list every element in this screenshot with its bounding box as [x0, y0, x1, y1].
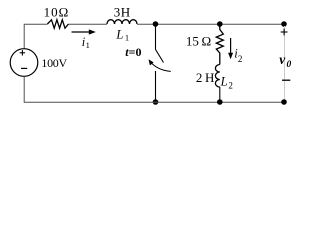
- svg-text:L: L: [220, 74, 228, 88]
- switch top lead: [155, 24, 157, 50]
- svg-text:v: v: [279, 52, 286, 67]
- wire: top-left corner segment: [24, 24, 47, 49]
- switch bottom lead: [155, 71, 157, 102]
- faint open-terminal line: [284, 26, 286, 100]
- output polarity minus: [282, 79, 290, 81]
- svg-text:t=0: t=0: [125, 45, 141, 59]
- svg-text:2: 2: [238, 54, 243, 64]
- switch blade: [156, 50, 164, 63]
- node: branch bottom: [217, 99, 223, 105]
- voltage source circle: [10, 49, 38, 77]
- node: switch bottom: [153, 99, 159, 105]
- svg-text:2 H: 2 H: [196, 70, 215, 85]
- node: switch top: [153, 21, 159, 27]
- svg-text:3H: 3H: [114, 5, 131, 20]
- node: output top: [281, 21, 287, 27]
- svg-text:1: 1: [86, 40, 90, 50]
- voltage source minus: [21, 67, 27, 69]
- svg-text:L: L: [115, 27, 123, 41]
- switch motion arc: [150, 62, 171, 72]
- node: output bottom: [281, 99, 287, 105]
- wire: L2 to bottom node: [219, 87, 221, 102]
- inductor L2 2H coil: [215, 65, 219, 88]
- switch arrowhead: [149, 59, 154, 65]
- wire: source to bottom-left corner and bottom rail: [24, 76, 284, 102]
- wire: between resistor and inductor L1: [69, 23, 108, 25]
- svg-text:10Ω: 10Ω: [44, 4, 70, 19]
- output polarity plus: [281, 31, 288, 33]
- inductor L1 3H coil: [107, 20, 137, 24]
- svg-text:2: 2: [228, 81, 233, 91]
- svg-text:1: 1: [125, 32, 129, 42]
- resistor R 10Ω zigzag: [47, 20, 68, 28]
- voltage source plus: [20, 52, 25, 54]
- current arrow i1: [72, 31, 91, 33]
- svg-text:15 Ω: 15 Ω: [186, 33, 211, 48]
- svg-text:0: 0: [287, 60, 292, 70]
- resistor 15Ω vertical zigzag with stubs: [216, 24, 223, 65]
- node: branch top: [217, 21, 223, 27]
- current arrow i2: [230, 38, 232, 54]
- wire: top rail from L1 to right end: [137, 23, 284, 25]
- svg-text:100V: 100V: [41, 56, 67, 70]
